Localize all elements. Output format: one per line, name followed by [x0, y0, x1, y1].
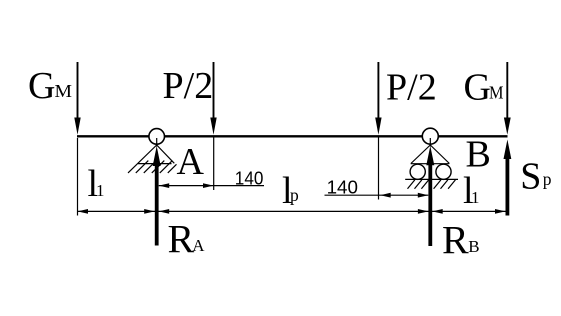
svg-text:P/2: P/2 [386, 67, 437, 109]
svg-text:G: G [464, 67, 491, 109]
label G_M right [464, 67, 504, 109]
label S_p [520, 155, 552, 197]
support A pin stem [156, 138, 158, 147]
svg-text:P/2: P/2 [163, 65, 214, 107]
svg-text:M: M [55, 81, 73, 101]
label R_B [442, 217, 480, 262]
svg-text:1: 1 [96, 181, 105, 200]
svg-text:p: p [543, 169, 552, 189]
support B ground line [405, 178, 458, 180]
bottom dimension arrow pair at R_A [144, 209, 169, 214]
svg-text:R: R [168, 216, 195, 261]
label l1 left [88, 163, 105, 205]
support B pin stem [429, 138, 431, 147]
support A pin circle [149, 129, 165, 145]
extension line P/2 right [378, 138, 380, 200]
svg-text:B: B [468, 237, 479, 256]
bottom dimension line [78, 210, 506, 212]
svg-text:S: S [520, 155, 541, 197]
force arrow S_p [504, 140, 512, 216]
extension line left end [77, 138, 79, 216]
bottom dimension arrow pair at R_B [418, 209, 443, 214]
label G_M left [28, 65, 72, 107]
svg-text:A: A [192, 236, 205, 255]
dimension 140 left line [159, 183, 264, 188]
support B ground hatching [408, 180, 456, 189]
bottom dimension arrow at left end [78, 209, 89, 214]
label l1 right [463, 170, 480, 212]
beam [77, 135, 508, 137]
label lp [282, 170, 299, 212]
label R_A [168, 216, 206, 261]
force arrow P/2 left [210, 62, 216, 135]
svg-text:p: p [290, 185, 299, 205]
extension line P/2 left [213, 138, 215, 191]
reaction arrow R_A [153, 146, 161, 246]
force arrow G_M right [504, 62, 511, 135]
reaction arrow R_B [426, 146, 434, 246]
svg-text:R: R [442, 217, 469, 262]
support A ground hatching [136, 161, 177, 173]
support B triangle [411, 145, 450, 164]
svg-text:140: 140 [235, 169, 264, 189]
force arrow G_M left [74, 62, 80, 135]
svg-text:A: A [177, 141, 205, 183]
support B pin circle [422, 128, 438, 144]
svg-text:1: 1 [471, 188, 480, 207]
svg-text:G: G [28, 65, 55, 107]
svg-text:140: 140 [327, 178, 358, 198]
svg-text:M: M [489, 83, 504, 103]
force arrow P/2 right [375, 62, 381, 135]
bottom dimension arrow at right end [495, 209, 506, 214]
support B roller right [436, 164, 451, 179]
support A triangle [128, 145, 174, 173]
dimension 140 right line [325, 193, 429, 198]
support B roller left [410, 164, 425, 179]
